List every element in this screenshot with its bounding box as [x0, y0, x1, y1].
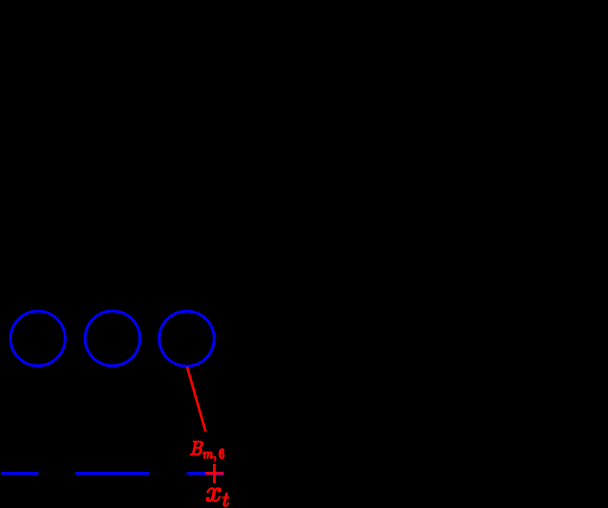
- dashed blue line segment 3b (under left arm of cross): [205, 472, 214, 475]
- circle 1 (blue ball): [11, 311, 66, 366]
- dashed blue line segment 1: [1, 472, 38, 475]
- dashed blue line segment 3 (left of cross): [187, 472, 206, 475]
- label B_m,6 (Computer Modern italic): [191, 441, 225, 461]
- label x_t (Computer Modern italic): [206, 488, 229, 506]
- circle 3 (blue ball): [159, 311, 214, 366]
- dashed blue line segment 2: [75, 472, 150, 475]
- purple blend band on right arm of cross: [214, 472, 223, 475]
- dashed blue line segment 3c (under right arm of cross): [214, 471, 224, 475]
- red cross marker at point x_t: [205, 464, 215, 483]
- red pointer line from circle 3 to label B_m,6: [187, 367, 205, 432]
- red core of right arm of cross: [214, 472, 223, 474]
- circle 2 (blue ball): [85, 311, 140, 366]
